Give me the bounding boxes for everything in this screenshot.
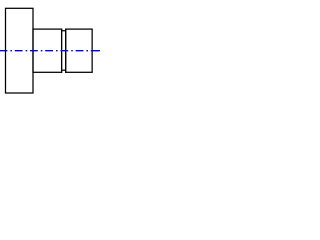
centerline trailing dash to right edge [96,50,101,52]
flange (large left rectangle) [6,8,34,93]
centerline (blue dash-dot axis) [0,50,101,52]
relief groove top line [62,30,66,32]
relief groove right wall [65,29,67,73]
background [0,0,100,100]
middle cylinder section [33,29,62,72]
relief groove bottom line [62,69,66,71]
relief groove left wall [61,29,63,73]
right cylinder section [66,29,92,72]
